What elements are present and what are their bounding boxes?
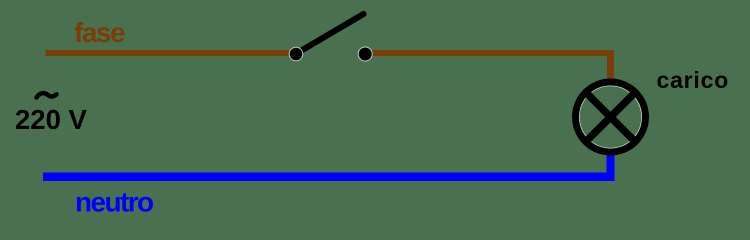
wire neutro horizontal + corner + vertical to lamp bottom (43, 155, 615, 181)
svg-text:220 V: 220 V (15, 104, 88, 135)
svg-text:fase: fase (74, 17, 125, 48)
AC tilde symbol (37, 93, 57, 97)
lamp X stroke 1 (588, 95, 633, 140)
svg-text:carico: carico (657, 67, 730, 93)
lamp X stroke 2 (588, 95, 633, 140)
switch left contact dot (289, 47, 303, 61)
svg-text:neutro: neutro (75, 187, 154, 218)
switch right contact dot (358, 47, 372, 61)
lamp (carico) inner AA fringe ring (579, 86, 642, 149)
wire fase horizontal right segment + corner + vertical to lamp (364, 50, 614, 79)
switch S1 lever (296, 14, 364, 54)
wire fase horizontal left segment (46, 50, 297, 56)
lamp circle (576, 82, 646, 152)
